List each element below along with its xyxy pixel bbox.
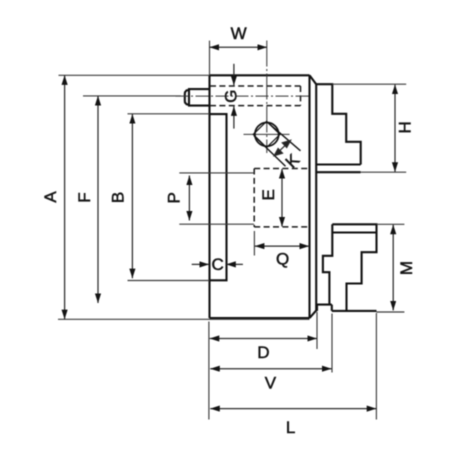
- svg-text:Q: Q: [276, 249, 289, 268]
- spindle recess (C step): [210, 114, 227, 280]
- body top edge extension (A ref): [59, 74, 210, 76]
- bottom jaw stepped block: [317, 224, 377, 311]
- dimension M: [392, 225, 394, 311]
- B top extension line: [128, 113, 210, 115]
- dimension D: [210, 338, 317, 340]
- svg-text:F: F: [75, 192, 94, 202]
- svg-text:W: W: [231, 24, 247, 43]
- square socket diamond: [253, 121, 280, 147]
- P extension lines: [179, 173, 254, 224]
- K tangent lines: [254, 122, 301, 166]
- svg-text:M: M: [397, 261, 416, 275]
- Q left extension: [253, 231, 255, 256]
- svg-text:C: C: [211, 255, 223, 274]
- svg-text:A: A: [41, 191, 60, 203]
- svg-text:B: B: [109, 192, 128, 203]
- M extension lines: [377, 224, 405, 312]
- W extension lines: [209, 41, 211, 76]
- hidden key hole G (dashed): [210, 86, 301, 106]
- dimension V: [210, 368, 331, 370]
- dimension G arrows: [233, 64, 235, 129]
- V right extension: [331, 314, 333, 373]
- D/V/L left extension: [208, 322, 210, 420]
- dimension C arrows: [192, 263, 243, 265]
- svg-text:G: G: [222, 90, 241, 103]
- svg-text:E: E: [259, 189, 278, 200]
- back flange with chamfers: [310, 75, 317, 318]
- D right extension: [316, 312, 318, 349]
- svg-text:L: L: [286, 418, 295, 437]
- socket centre line vertical: [266, 41, 268, 154]
- dimension P: [188, 176, 190, 221]
- key pin (side socket stud): [185, 89, 210, 106]
- dimension W: [210, 46, 268, 48]
- svg-text:H: H: [395, 121, 414, 133]
- dimension A: [64, 75, 66, 319]
- baseline (body bottom extended): [58, 318, 310, 320]
- F extension line (pin axis left): [83, 95, 181, 97]
- socket centre line horizontal: [244, 133, 290, 135]
- svg-text:V: V: [265, 374, 277, 393]
- pin centre line (dash-dot): [176, 95, 310, 97]
- svg-text:P: P: [164, 192, 183, 203]
- dimension K: [274, 140, 290, 155]
- dimension E: [281, 169, 283, 227]
- key socket circle: [255, 122, 279, 146]
- dimension F: [97, 96, 99, 303]
- dimension Q: [255, 245, 309, 247]
- chuck body outline: [210, 75, 310, 318]
- svg-text:D: D: [257, 343, 269, 362]
- dimension H: [394, 85, 396, 172]
- top jaw stepped block: [316, 84, 361, 172]
- hidden jaw slot E (dashed rectangle): [254, 169, 309, 227]
- dimension B: [131, 114, 133, 278]
- L right extension: [375, 313, 377, 420]
- H extension lines: [332, 84, 406, 172]
- dimension L: [210, 408, 376, 410]
- B bottom extension line: [128, 280, 210, 282]
